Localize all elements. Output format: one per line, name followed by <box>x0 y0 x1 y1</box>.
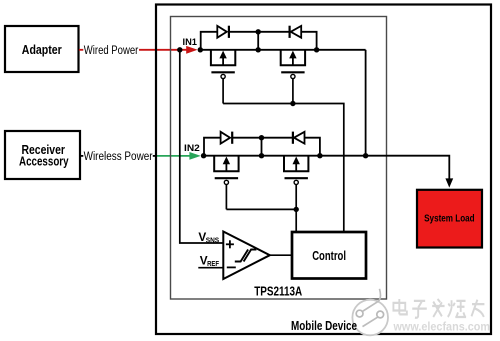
svg-text:System Load: System Load <box>424 214 475 225</box>
transistor Q3 gate bubble <box>224 180 228 184</box>
diode D1 row1 left <box>217 26 229 38</box>
diode D2 row1 right <box>290 26 302 38</box>
wire VREF <box>198 267 223 269</box>
svg-text:Accessory: Accessory <box>19 154 69 168</box>
wire VSNS sense line from IN1 node to comparator <box>180 50 224 243</box>
outer box Mobile Device <box>156 5 491 335</box>
label Wireless Power <box>84 151 153 163</box>
wire row2 main rail to System Load corner <box>204 156 450 180</box>
arrowhead green IN2 <box>189 152 200 160</box>
transistor Q3 gate bar <box>215 177 238 179</box>
node row1 mid on rail <box>256 47 261 52</box>
label TPS2113A <box>254 283 302 298</box>
wire D1 cathode to mid node <box>229 31 258 33</box>
wire row1 diode branch riser <box>201 32 218 50</box>
node row1 gate junction <box>290 101 295 106</box>
svg-text:Wired Power: Wired Power <box>84 45 139 57</box>
watermark url <box>393 321 490 334</box>
node row2 diode mid top <box>259 135 264 140</box>
svg-text:IN1: IN1 <box>183 37 198 47</box>
transistor Q4 gate bar <box>285 177 308 179</box>
wire Q4 gate down to control <box>295 185 297 233</box>
transistor Q2 gate bar <box>281 71 304 73</box>
box Control <box>292 232 366 279</box>
svg-text:REF: REF <box>207 259 220 268</box>
node row2 gate junction <box>294 207 299 212</box>
wire black Wireless Power stub <box>80 155 83 157</box>
wire row2 diode branch riser <box>204 138 221 156</box>
transistor Q1 body staple <box>211 50 235 66</box>
minus input mark <box>227 266 236 268</box>
wire Q2 gate down <box>292 79 294 104</box>
wire black dash after Wireless Power <box>153 155 156 157</box>
transistor Q4 body staple <box>284 156 308 172</box>
transistor Q1 gate bubble <box>221 74 225 78</box>
wire row2 mid drop <box>261 138 263 156</box>
svg-text:TPS2113A: TPS2113A <box>254 283 302 298</box>
wire row1 output down to row2 rail <box>365 50 367 156</box>
label Mobile Device <box>291 318 357 333</box>
diode D4 row2 right <box>293 132 305 144</box>
hysteresis symbol <box>235 250 257 262</box>
wire mid node to D4 cathode <box>262 137 293 139</box>
box Adapter <box>5 26 79 72</box>
diode D3 row2 left <box>221 132 233 144</box>
node IN1 <box>198 47 203 52</box>
watermark chinese characters <box>393 299 484 318</box>
box Receiver Accessory <box>5 131 80 179</box>
label Wired Power <box>84 45 139 57</box>
svg-text:Adapter: Adapter <box>22 43 62 57</box>
wire green to IN2 <box>156 155 191 157</box>
wire D3 cathode to mid node <box>232 137 261 139</box>
wire row1 gate bus to control <box>223 104 344 233</box>
wire D4 anode to drop <box>304 138 320 156</box>
svg-text:IN2: IN2 <box>184 143 200 153</box>
label IN1 <box>183 37 198 47</box>
node row2 right diode on rail <box>317 153 322 158</box>
node row1 output on row2 rail <box>363 153 368 158</box>
wire comparator output <box>270 254 292 256</box>
node IN2 <box>201 153 206 158</box>
transistor Q4 gate bubble <box>294 180 298 184</box>
wire row2 gate bus <box>226 208 296 210</box>
svg-text:SNS: SNS <box>206 235 220 244</box>
transistor Q2 body staple <box>281 50 305 66</box>
transistor Q2 gate bubble <box>291 74 295 78</box>
label IN2 <box>184 143 200 153</box>
node row1 diode mid top <box>256 29 261 34</box>
wire Q1 gate down <box>222 79 224 104</box>
inner box TPS2113A <box>171 17 387 300</box>
wire Q3 gate down <box>225 185 227 210</box>
transistor Q1 gate bar <box>211 71 234 73</box>
svg-text:Wireless Power: Wireless Power <box>84 151 153 163</box>
box System Load <box>417 190 482 248</box>
arrowhead red IN1 <box>186 46 197 54</box>
svg-text:Mobile Device: Mobile Device <box>291 318 357 333</box>
svg-text:Control: Control <box>312 249 346 263</box>
wire mid node to D2 cathode <box>258 31 289 33</box>
arrowhead into System Load <box>445 178 453 187</box>
label VREF <box>200 253 220 268</box>
plus input mark <box>226 240 234 248</box>
wire red to IN1 <box>139 49 187 51</box>
wire D2 anode to drop <box>301 32 317 50</box>
watermark logo circle <box>352 289 388 336</box>
wire red Wired Power stub <box>79 49 83 51</box>
wire row1 mid drop <box>257 32 259 50</box>
wire row1 main rail IN1 <box>200 49 365 51</box>
transistor Q3 body staple <box>214 156 238 172</box>
op-amp comparator U1 <box>223 232 269 280</box>
label VSNS <box>198 230 219 245</box>
node row2 mid on rail <box>259 153 264 158</box>
svg-text:www.elecfans.com: www.elecfans.com <box>393 321 490 334</box>
node IN1 sense tap <box>177 47 182 52</box>
node row1 right diode on rail <box>314 47 319 52</box>
